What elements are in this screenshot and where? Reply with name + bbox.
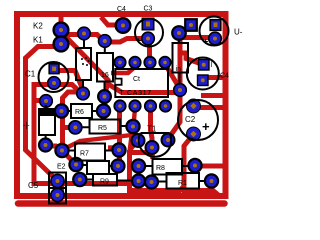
wire: R8 right pad to right border [196, 164, 226, 169]
pad C2 top [187, 99, 201, 113]
resistor R4 outline [71, 104, 92, 118]
svg-text:C4: C4 [117, 6, 126, 13]
wire: IC top pin2 stub [111, 65, 137, 73]
svg-text:K2: K2 [33, 22, 43, 31]
capacitor U- outline [200, 17, 229, 46]
pad U- bottom [209, 32, 222, 45]
pad P9 square [185, 19, 197, 31]
pad C3 top [142, 18, 153, 29]
svg-text:C1: C1 [25, 70, 36, 79]
wire: P20 horizontal to rect2 area [108, 84, 180, 93]
wire: C3 bottom pad down to IC pin [147, 40, 152, 62]
pad R5 left [69, 121, 82, 134]
svg-text:R9: R9 [100, 179, 109, 186]
svg-text:C2: C2 [185, 115, 196, 124]
pad P16 resistor bottom [98, 90, 111, 103]
svg-text:C5: C5 [28, 181, 39, 190]
board outline trace [17, 14, 226, 196]
svg-text:R8: R8 [156, 165, 165, 172]
svg-text:T1: T1 [147, 125, 157, 134]
resistor R8 outline [153, 159, 183, 175]
pad D1 bottom [39, 139, 52, 152]
resistor B outline [93, 174, 117, 186]
pad C1 top [49, 64, 59, 74]
pad (118,166) [112, 160, 125, 173]
svg-text:R1: R1 [178, 180, 187, 187]
pad P15 resistor bottom [77, 87, 90, 100]
wire: pad P3 diagonal through R resistors to P16/P25 [66, 37, 108, 111]
connector K3 outline [49, 173, 66, 204]
pad R4 left [55, 104, 68, 117]
svg-text:C3: C3 [144, 6, 153, 13]
svg-text:C4: C4 [220, 73, 229, 80]
pad K1-1 [54, 37, 69, 52]
pad C3 bottom [142, 32, 155, 45]
wire: stub to right border [201, 93, 226, 98]
wire: IC top pin4 to P20 [165, 64, 180, 89]
pad P20 [174, 84, 187, 97]
svg-text:R7: R7 [80, 151, 89, 158]
wire: IC bottom pin2 to R5 right pad [134, 108, 136, 126]
T1 pads [132, 134, 145, 147]
value dots in R1 [81, 57, 90, 66]
svg-text:in: in [176, 66, 182, 73]
transistor T1 outline [139, 133, 172, 157]
svg-text:T: T [120, 90, 125, 97]
wire: bus C branch to diode top pad [34, 98, 44, 103]
svg-text:CA317: CA317 [127, 90, 152, 97]
pad U- top [210, 20, 221, 31]
wire: top chain K2 pad - P3 - P4 - C3 bottom pad [62, 35, 148, 43]
wire: P9 down left side of C4 to P20 and T1 right pad [168, 36, 180, 139]
pad P8 trimmer top [172, 26, 186, 40]
pad P25 R4 right [97, 104, 110, 117]
pad (138.5,166) [132, 159, 145, 172]
resistor R7 outline [75, 144, 105, 161]
pad rectB left [73, 173, 86, 186]
wire: C2 top pad to right border [195, 105, 226, 110]
wire: P8 to right: to trimmer C4 pad and U- pad [181, 35, 213, 40]
svg-text:+: + [202, 119, 210, 134]
IC pads top row [114, 57, 171, 112]
wire: C2 bottom pad down around to T1 center [130, 134, 194, 191]
pad K2-1 [54, 23, 69, 38]
pad P4 resistor top [99, 35, 112, 48]
pad R9 right [205, 174, 218, 187]
capacitor C4 outline [187, 58, 219, 90]
wire: branch to C1 top pad [57, 71, 83, 91]
capacitor C1 outline [39, 62, 69, 92]
bottom ground trace [18, 200, 225, 207]
pad C4 top (square) [199, 60, 210, 71]
pad C2 bottom [187, 127, 201, 141]
wire: P15 to pad (66,126) [62, 92, 81, 151]
wire: pad K2 stub to top border [59, 14, 64, 30]
resistor A outline [87, 161, 109, 174]
pad R7 left [55, 144, 68, 157]
wire: C4 bottom pad to right border [205, 75, 226, 80]
resistor R2 outline [97, 53, 113, 82]
pad R8 right [188, 159, 201, 172]
diode D1 outline [39, 109, 55, 135]
pad C1 bottom [48, 77, 61, 90]
wire: connector stub down [59, 183, 64, 196]
svg-text:-|-: -|- [23, 123, 30, 130]
IC U1 outline [115, 69, 168, 97]
resistor R1 outline [76, 48, 91, 80]
capacitor C3 outline [135, 19, 163, 47]
pad P3 resistor top [78, 27, 91, 40]
svg-text:E2: E2 [57, 164, 66, 171]
svg-text:+: + [136, 36, 141, 46]
svg-text:K1: K1 [33, 36, 43, 45]
connector K3 pads [51, 174, 64, 187]
pad P27 R7 right [112, 143, 125, 156]
svg-text:U-: U- [234, 28, 243, 37]
pad diode top [40, 95, 53, 108]
pad P5 via [116, 18, 131, 33]
trimmer/resistor Rin outline [173, 43, 189, 73]
wire: K1 pad to left vertical bus B [26, 47, 62, 182]
wire: diode bottom pad to R7 left pad to rectA left pad [47, 146, 77, 165]
wire: pad (66,126) diagonal under R5 to P27 [66, 135, 136, 149]
wire: C1 bottom pad to bus C down and across bottom [34, 85, 152, 184]
wire: IC bottom pin1 down to P27 and pad below [117, 108, 122, 166]
svg-text:R5: R5 [98, 125, 107, 132]
svg-text:16: 16 [101, 72, 109, 79]
svg-text:Ct: Ct [133, 76, 140, 83]
pad (138.5,182) [132, 175, 145, 188]
pad rectA left [69, 158, 82, 171]
resistor R9 outline [167, 173, 200, 189]
wire: pad P5 to top border [101, 17, 123, 25]
svg-text:+: + [203, 37, 208, 47]
pad C4 bottom (square) [198, 75, 209, 86]
wire: T1 left pad stub [130, 141, 138, 151]
resistor R5 outline [90, 120, 121, 134]
wire: IC bottom pin3 down to T1 center pad [151, 108, 153, 145]
wire: bottom run to border corner [182, 191, 220, 197]
pad (151.5,182) [145, 176, 158, 189]
svg-text:R6: R6 [75, 109, 84, 116]
IC notch [116, 79, 122, 85]
capacitor C2 outline [178, 100, 218, 140]
pad R5 right [126, 120, 139, 133]
wire: T1 center pad down to R8 [150, 149, 155, 159]
